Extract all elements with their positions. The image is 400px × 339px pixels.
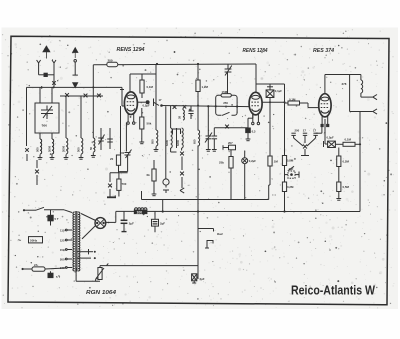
svg-text:0,2M: 0,2M (287, 185, 294, 189)
svg-text:240: 240 (60, 266, 65, 270)
svg-text:17: 17 (313, 129, 317, 133)
svg-text:2000: 2000 (61, 145, 65, 152)
svg-text:20: 20 (110, 157, 114, 161)
svg-text:378: 378 (342, 82, 347, 86)
svg-text:RENS 1284: RENS 1284 (243, 48, 268, 54)
svg-text:0,2µF: 0,2µF (143, 104, 150, 108)
svg-text:50: 50 (89, 146, 93, 150)
svg-text:Rad: Rad (217, 232, 223, 236)
svg-text:0,1M: 0,1M (289, 97, 296, 101)
svg-text:0,5M: 0,5M (343, 185, 350, 189)
svg-text:100: 100 (137, 210, 143, 214)
svg-text:17: 17 (303, 129, 307, 133)
svg-text:0,1M: 0,1M (345, 138, 352, 142)
svg-text:38: 38 (178, 116, 182, 119)
svg-text:0,1M: 0,1M (147, 85, 154, 89)
svg-text:1M: 1M (274, 160, 279, 164)
svg-text:700: 700 (122, 182, 127, 186)
svg-text:2µF: 2µF (200, 277, 205, 281)
svg-text:25k: 25k (219, 161, 224, 165)
svg-text:200: 200 (60, 257, 65, 261)
svg-text:0,1µF: 0,1µF (275, 89, 282, 93)
svg-text:6k: 6k (147, 173, 151, 177)
svg-text:2000: 2000 (47, 145, 51, 152)
svg-text:125: 125 (60, 238, 65, 242)
svg-text:850: 850 (150, 139, 154, 144)
svg-text:200: 200 (295, 129, 300, 133)
svg-text:RES 374: RES 374 (313, 48, 334, 54)
svg-text:500: 500 (76, 147, 80, 152)
svg-text:0,2M: 0,2M (343, 160, 350, 164)
svg-text:Reico-Atlantis W: Reico-Atlantis W (291, 284, 375, 298)
svg-text:200: 200 (108, 59, 113, 63)
svg-text:250: 250 (223, 101, 228, 105)
svg-text:5 T: 5 T (56, 275, 60, 279)
svg-text:5,8M: 5,8M (287, 159, 294, 163)
svg-text:150: 150 (60, 248, 65, 252)
svg-text:50Hz: 50Hz (30, 239, 38, 243)
svg-text:17: 17 (159, 98, 162, 102)
svg-text:0,3: 0,3 (252, 129, 256, 133)
svg-text:15M: 15M (222, 90, 228, 94)
svg-text:100: 100 (120, 151, 125, 155)
svg-text:0,2µF: 0,2µF (249, 159, 256, 163)
svg-text:500: 500 (42, 124, 47, 128)
svg-text:207: 207 (228, 141, 233, 145)
svg-text:50k: 50k (147, 122, 152, 126)
svg-text:RGN 1064: RGN 1064 (86, 290, 116, 296)
svg-text:6200: 6200 (176, 140, 180, 146)
svg-text:~: ~ (18, 238, 22, 245)
svg-text:110: 110 (60, 228, 65, 232)
svg-text:5 T: 5 T (55, 217, 59, 221)
svg-text:2µF: 2µF (129, 221, 134, 225)
svg-text:RENS 1294: RENS 1294 (117, 47, 145, 53)
svg-text:Ω: Ω (225, 105, 227, 109)
svg-text:0,5µF: 0,5µF (327, 135, 334, 139)
svg-text:650: 650 (193, 139, 197, 144)
svg-text:1,2M: 1,2M (202, 85, 209, 89)
svg-text:500: 500 (35, 147, 39, 152)
svg-text:2µF: 2µF (160, 221, 165, 225)
